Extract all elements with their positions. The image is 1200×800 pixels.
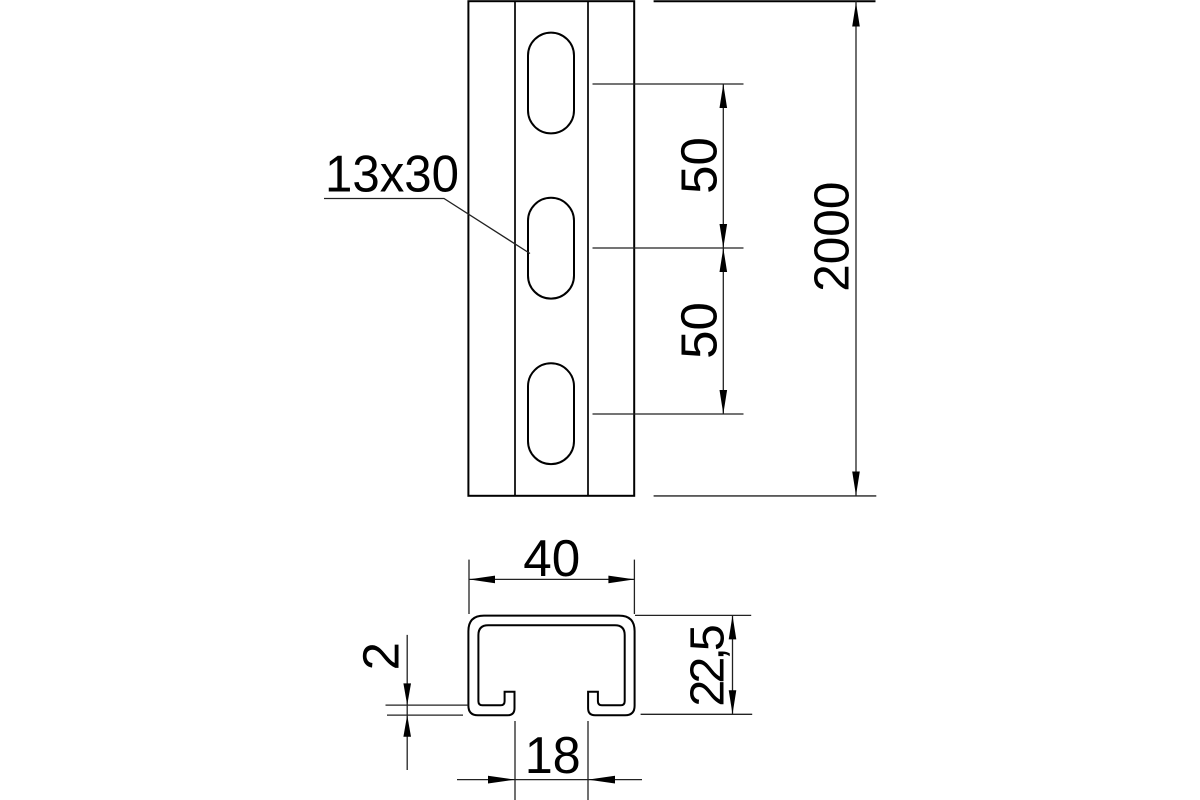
22,5 arrow down: [729, 690, 737, 714]
rail front view outer rectangle: [468, 1, 634, 496]
22,5 dim extension line bottom: [641, 713, 753, 715]
extension line slot3 center: [593, 413, 744, 415]
40 dim extension line left: [468, 560, 470, 614]
40 dim extension line right: [633, 560, 635, 614]
22,5 arrow up: [729, 615, 737, 639]
svg-text:13x30: 13x30: [325, 145, 459, 203]
18 dimension line: [457, 779, 642, 781]
2 dim extension line upper: [386, 704, 469, 706]
extension line 2000 bottom: [654, 495, 877, 497]
svg-text:40: 40: [523, 530, 580, 588]
40 arrow right: [608, 576, 634, 584]
slot hole 1 (13x30): [528, 33, 574, 134]
arrow down at y=414: [720, 390, 728, 414]
arrow up at y=248 (lower pair): [720, 248, 728, 272]
40 dimension line: [469, 578, 634, 580]
18 arrow pointing left at right ext: [588, 776, 615, 784]
rail inner vertical line left: [514, 1, 516, 496]
2 arrow down (above): [403, 683, 411, 705]
svg-text:18: 18: [525, 727, 581, 785]
arrow down at y=248 (upper pair): [720, 224, 728, 248]
extension line 2000 top: [654, 0, 876, 2]
dimension line 50/50 vertical: [722, 84, 724, 414]
2 dimension line vertical: [406, 635, 408, 770]
slot hole 2 (13x30): [528, 198, 574, 299]
svg-text:50: 50: [671, 302, 728, 359]
rail inner vertical line right: [587, 1, 589, 496]
svg-text:50: 50: [671, 137, 728, 194]
leader line from 13x30 label to slot 2: [324, 199, 530, 254]
22,5 dimension line: [732, 615, 734, 714]
18 dim extension line right: [587, 721, 589, 800]
18 dim extension line left: [514, 721, 516, 800]
cross-section C-profile outline: [468, 616, 634, 716]
svg-text:2: 2: [353, 642, 410, 670]
arrow up at 2000 top: [852, 3, 860, 27]
extension line slot2 center: [593, 247, 744, 249]
2 dim extension line lower: [387, 714, 463, 716]
arrow down at 2000 bottom: [852, 472, 860, 496]
svg-text:2000: 2000: [805, 182, 860, 292]
18 arrow pointing right at left ext: [488, 776, 515, 784]
arrow up at y=84: [720, 84, 728, 108]
22,5 dim extension line top: [635, 614, 751, 616]
svg-text:22,5: 22,5: [681, 626, 735, 706]
40 arrow left: [469, 576, 495, 584]
2 arrow up (below): [403, 715, 411, 737]
extension line slot1 center: [593, 83, 744, 85]
slot hole 3 (13x30): [528, 363, 574, 464]
dimension line 2000 vertical: [855, 1, 857, 496]
